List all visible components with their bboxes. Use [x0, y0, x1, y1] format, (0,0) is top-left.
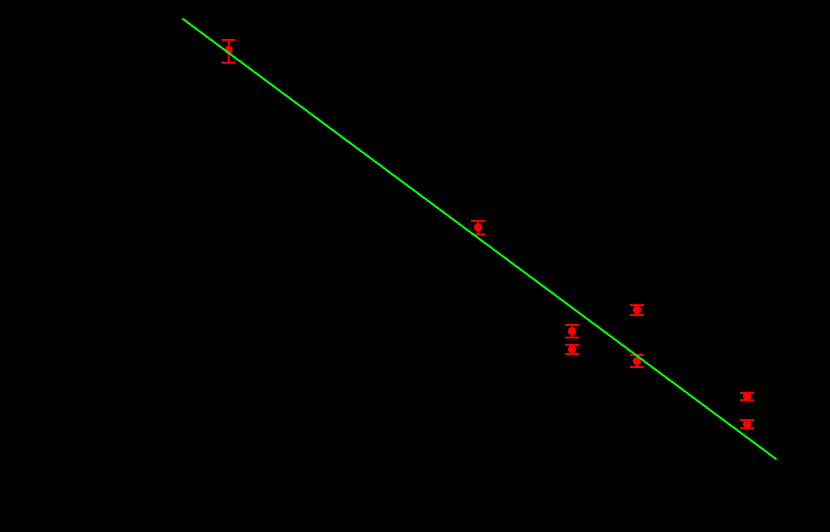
fit line (green, drawn on top)	[182, 19, 776, 460]
data point 6 marker	[633, 357, 641, 365]
data point 5 marker	[633, 306, 641, 314]
data point 7 error bar	[740, 393, 754, 400]
data point 4 error bar	[565, 345, 579, 354]
data point 3 error bar	[565, 325, 579, 338]
data point 2 marker	[474, 223, 482, 231]
data point 7 marker	[743, 392, 751, 400]
data point 2 error bar	[471, 221, 485, 235]
data point 3 marker	[568, 327, 576, 335]
data point 1 marker	[224, 46, 232, 54]
data point 8 marker	[743, 420, 751, 428]
data point 1 error bar	[222, 40, 236, 63]
data point 6 error bar	[630, 355, 644, 367]
data point 4 marker	[568, 345, 576, 353]
data point 8 error bar	[740, 420, 754, 428]
data point 5 error bar	[630, 305, 644, 315]
